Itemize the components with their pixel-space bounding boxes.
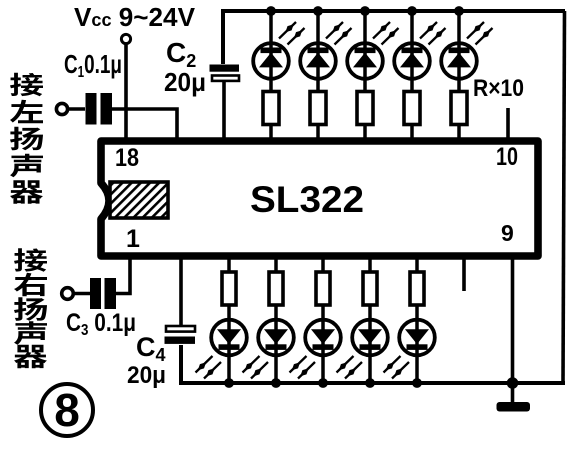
LED D7 light arrows	[251, 362, 268, 379]
wire unused pin stub bottom	[462, 256, 466, 291]
LED D3	[347, 43, 383, 80]
wire LED to resistor 3	[363, 79, 367, 92]
capacitor C4 (electrolytic)	[166, 326, 195, 332]
node junction bottom bus 4	[365, 378, 375, 388]
wire resistor to LED D7	[274, 305, 278, 319]
wire bus to LED 5	[457, 11, 461, 43]
wire unused pin stub top	[506, 108, 510, 140]
LED D5	[441, 43, 477, 80]
wire IC to resistor R6	[227, 256, 231, 273]
resistor R5	[451, 92, 467, 125]
wire Vcc to pin 18	[124, 44, 128, 141]
terminal Vcc	[121, 34, 130, 43]
label connect-left-speaker (Chinese vertical)	[10, 73, 43, 204]
node junction top bus 2	[313, 6, 323, 16]
wire resistor to LED D6	[227, 305, 231, 319]
wire resistor 4 to IC	[410, 125, 414, 141]
wire pin 9 to ground bus	[511, 256, 515, 383]
node junction top bus 5	[454, 6, 464, 16]
resistor R9	[363, 272, 377, 305]
LED D10 light arrows	[392, 362, 409, 379]
node junction bottom bus 5	[412, 378, 422, 388]
wire resistor 2 to IC	[316, 125, 320, 141]
wire right vertical rail	[563, 11, 565, 383]
node junction ground	[507, 377, 519, 389]
wire LED to resistor 5	[457, 79, 461, 92]
LED D1 light arrows	[279, 22, 296, 39]
LED D9	[352, 319, 388, 356]
capacitor C3	[90, 278, 101, 309]
wire bottom ground bus	[181, 345, 565, 383]
wire bus to LED 1	[269, 11, 273, 43]
op-amp IC U1 SL322 body	[101, 141, 538, 256]
node junction bottom bus 3	[318, 378, 328, 388]
svg-text:C3 0.1μ: C3 0.1μ	[66, 309, 136, 339]
wire pin 1 to C3	[116, 256, 130, 294]
wire LED to resistor 4	[410, 79, 414, 92]
LED D8	[305, 319, 341, 356]
capacitor C1	[86, 93, 97, 125]
LED D6	[211, 319, 247, 356]
LED D5 light arrows	[467, 22, 484, 39]
wire LED to bus	[227, 356, 231, 383]
resistor R4	[404, 92, 420, 125]
svg-text:C10.1μ: C10.1μ	[64, 49, 122, 81]
wire IC to resistor R10	[415, 256, 419, 273]
svg-text:1: 1	[126, 225, 140, 253]
node junction top bus 4	[407, 6, 417, 16]
wire C1 to IC	[112, 109, 177, 140]
ground	[511, 383, 515, 403]
LED D4 light arrows	[420, 22, 437, 39]
LED D8 light arrows	[298, 362, 315, 379]
resistor R8	[316, 272, 330, 305]
svg-text:18: 18	[115, 144, 139, 172]
svg-text:R×10: R×10	[473, 75, 524, 102]
LED D4	[394, 43, 430, 80]
LED D1	[253, 43, 289, 80]
wire resistor 1 to IC	[269, 125, 273, 141]
wire C2 to IC	[222, 81, 226, 140]
wire IC to resistor R7	[274, 256, 278, 273]
wire IC to resistor R9	[368, 256, 372, 273]
terminal right speaker input	[62, 288, 74, 300]
svg-text:8: 8	[54, 384, 80, 436]
resistor R2	[310, 92, 326, 125]
svg-text:20μ: 20μ	[127, 362, 166, 389]
wire terminal to C3	[73, 292, 90, 296]
wire LED to bus	[415, 356, 419, 383]
svg-text:SL322: SL322	[250, 179, 364, 220]
wire resistor to LED D9	[368, 305, 372, 319]
svg-text:9: 9	[501, 220, 514, 246]
wire IC to resistor R8	[321, 256, 325, 273]
wire LED to bus	[368, 356, 372, 383]
LED D7	[258, 319, 294, 356]
wire top supply bus	[223, 11, 565, 64]
figure number 8 circled	[41, 384, 93, 436]
svg-text:10: 10	[496, 143, 518, 171]
wire resistor 5 to IC	[457, 125, 461, 141]
wire resistor to LED D8	[321, 305, 325, 319]
LED D6 light arrows	[204, 362, 221, 379]
resistor R7	[269, 272, 283, 305]
resistor R3	[357, 92, 373, 125]
node junction top bus 1	[266, 6, 276, 16]
wire terminal to C1	[68, 107, 86, 111]
svg-text:20μ: 20μ	[164, 67, 206, 97]
LED D9 light arrows	[345, 362, 362, 379]
LED D2	[300, 43, 336, 80]
wire bus to LED 3	[363, 11, 367, 43]
wire LED to resistor 1	[269, 79, 273, 92]
resistor R10	[410, 272, 424, 305]
LED D3 light arrows	[373, 22, 390, 39]
wire resistor to LED D10	[415, 305, 419, 319]
wire IC to C4	[179, 256, 183, 327]
LED D10	[399, 319, 435, 356]
label connect-right-speaker (Chinese vertical)	[14, 248, 47, 368]
node junction top bus 3	[360, 6, 370, 16]
resistor R1	[263, 92, 279, 125]
wire LED to resistor 2	[316, 79, 320, 92]
wire bus to LED 2	[316, 11, 320, 43]
terminal left speaker input	[56, 103, 67, 114]
wire bus to LED 4	[410, 11, 414, 43]
resistor R6	[222, 272, 236, 305]
capacitor C2 (electrolytic)	[210, 65, 240, 72]
wire LED to bus	[274, 356, 278, 383]
node junction bottom bus 1	[224, 378, 234, 388]
wire resistor 3 to IC	[363, 125, 367, 141]
wire LED to bus	[321, 356, 325, 383]
LED D2 light arrows	[326, 22, 343, 39]
node junction bottom bus 2	[271, 378, 281, 388]
